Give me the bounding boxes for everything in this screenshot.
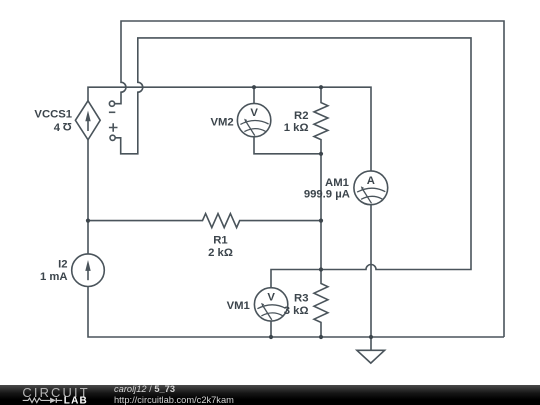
svg-text:R1: R1 xyxy=(213,235,227,247)
svg-text:AM1: AM1 xyxy=(325,177,349,189)
svg-text:2 kΩ: 2 kΩ xyxy=(208,247,233,259)
svg-text:Ω: Ω xyxy=(63,120,72,132)
svg-text:V: V xyxy=(267,291,275,303)
svg-text:4: 4 xyxy=(54,122,61,134)
svg-text:999.9 µA: 999.9 µA xyxy=(304,189,350,201)
svg-text:A: A xyxy=(367,175,375,187)
svg-text:I2: I2 xyxy=(58,259,67,271)
svg-text:V: V xyxy=(250,107,258,119)
svg-text:LAB: LAB xyxy=(64,396,88,405)
svg-text:R2: R2 xyxy=(294,110,308,122)
svg-text:1 mA: 1 mA xyxy=(40,271,68,283)
svg-text:R3: R3 xyxy=(294,292,308,304)
svg-text:VCCS1: VCCS1 xyxy=(34,109,72,121)
svg-text:3 kΩ: 3 kΩ xyxy=(284,305,309,317)
svg-text:1 kΩ: 1 kΩ xyxy=(284,122,309,134)
svg-text:VM2: VM2 xyxy=(210,117,233,129)
svg-text:VM1: VM1 xyxy=(227,300,250,312)
